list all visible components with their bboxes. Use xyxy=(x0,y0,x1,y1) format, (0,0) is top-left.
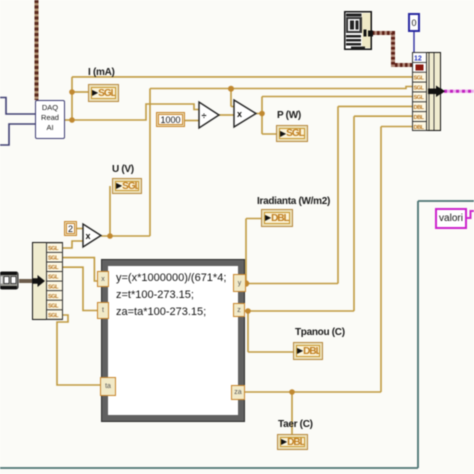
svg-text:SGL: SGL xyxy=(48,294,59,300)
svg-text:DBL: DBL xyxy=(414,105,425,111)
svg-text:SGL: SGL xyxy=(48,246,59,252)
svg-text:SGL: SGL xyxy=(48,313,59,319)
svg-text:SGL: SGL xyxy=(414,85,425,91)
svg-text:SGL: SGL xyxy=(48,256,59,262)
svg-text:SGL: SGL xyxy=(414,76,425,82)
svg-text:SGL: SGL xyxy=(48,303,59,309)
svg-text:SGL: SGL xyxy=(414,95,425,101)
svg-text:DBL: DBL xyxy=(414,125,425,131)
svg-text:SGL: SGL xyxy=(48,275,59,281)
svg-text:DBL: DBL xyxy=(414,115,425,121)
svg-text:SGL: SGL xyxy=(48,284,59,290)
svg-text:SGL: SGL xyxy=(48,265,59,271)
svg-text:12: 12 xyxy=(414,56,422,63)
